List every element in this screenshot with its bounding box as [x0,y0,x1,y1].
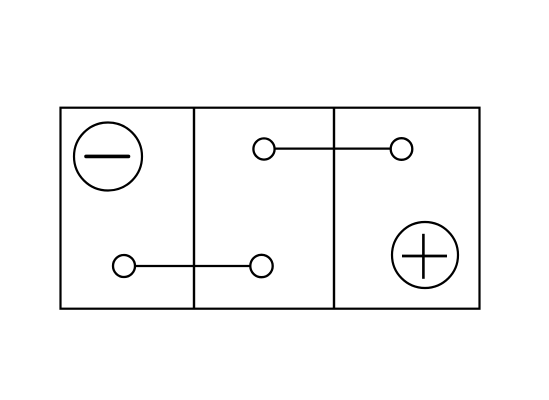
plus symbol [402,234,447,279]
battery case outline [61,108,480,309]
connector wire bottom (cell 1 to cell 2) [135,265,250,267]
connector post bottom right [250,255,272,277]
connector wire top (cell 2 to cell 3) [275,148,392,150]
connector post top left [253,138,274,159]
connector post bottom left [113,255,135,277]
minus symbol [86,155,129,159]
cell divider 1 [193,108,195,309]
negative terminal circle [74,123,142,191]
positive terminal circle [392,222,458,288]
cell divider 2 [333,108,335,309]
connector post top right [391,138,413,160]
